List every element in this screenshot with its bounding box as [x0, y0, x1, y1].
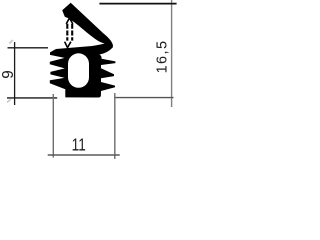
dimension 11: right extension line: [114, 93, 116, 159]
dimension 16,5: vertical dimension line: [171, 0, 173, 107]
dimension 16,5: bottom extension line: [114, 97, 174, 99]
svg-text:11: 11: [72, 136, 86, 155]
dimension 9: vertical dimension line: [14, 42, 16, 105]
dimension 11: dimension line: [48, 154, 120, 156]
svg-text:9: 9: [0, 70, 17, 78]
dimension 9: faint upper arrow remnant: [9, 40, 13, 44]
movement arrow: lower open head: [65, 42, 71, 48]
movement arrow: upper open head: [66, 18, 73, 24]
rubber seal profile silhouette (body with fins, lip arm, hollow chamber): [50, 3, 116, 98]
dimension 9: bottom tick line: [7, 97, 57, 99]
dimension 11: left extension line: [52, 94, 54, 158]
movement arrow: double dashed shaft: [66, 24, 68, 41]
dimension 16,5: top extension line: [99, 3, 176, 5]
dimension 9: faint lower arrow remnant: [7, 99, 11, 102]
svg-text:16,5: 16,5: [154, 40, 170, 74]
dimension 9: top tick line: [8, 47, 49, 49]
